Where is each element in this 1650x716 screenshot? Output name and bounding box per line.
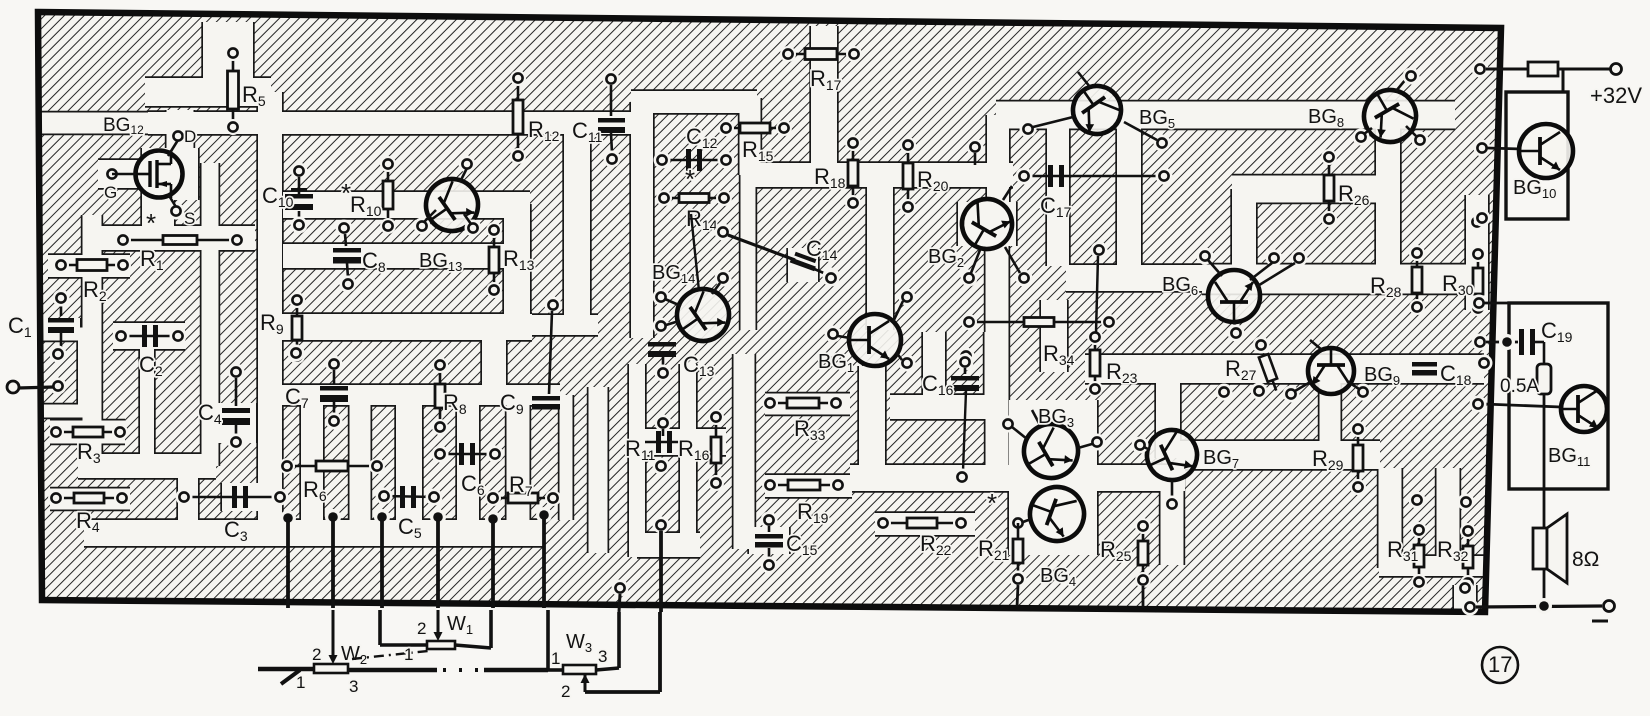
wire trace BG5 riser: [987, 115, 1009, 240]
wire trace P-ring left leg outline: [629, 102, 654, 338]
pad box bottom: [1474, 210, 1491, 227]
wire R25 stem: [1142, 586, 1145, 608]
wire BG9 emitter lead: [1295, 381, 1312, 391]
pad C12 left: [654, 152, 671, 169]
pad finger island node: [288, 345, 305, 362]
pad BG13 collector: [459, 156, 476, 173]
wire trace x860 link outline: [857, 366, 886, 478]
wire rail dash-dot: [443, 668, 484, 672]
wire trace C13 col bottom: [637, 533, 700, 557]
svg-text:3: 3: [598, 647, 607, 666]
wire BG6 bottom lead: [1234, 322, 1236, 328]
pad C17 left: [1016, 168, 1033, 185]
pad BG6 collector: [1197, 248, 1214, 265]
pad BG13 emitter: [414, 218, 431, 235]
wire trace finger gap 6 outline: [558, 395, 574, 520]
wire trace slot A: [1379, 468, 1402, 568]
wire trace R19 band: [765, 475, 852, 497]
wire BG4 base lead: [1023, 519, 1031, 522]
pad C6 right: [487, 446, 504, 463]
wire trace BG12 G-stub outline: [98, 158, 142, 189]
wire trace right col: [1466, 195, 1488, 310]
wire trace BG8 drop: [1376, 126, 1400, 272]
wire W3 wiper: [581, 674, 590, 692]
wire trace island frame top outline: [41, 326, 90, 342]
pad island node b: [653, 458, 670, 475]
wire trace channel-A outline: [283, 190, 530, 219]
wire BG7 base lead: [1144, 447, 1150, 450]
wire W2-W3 rail: [348, 668, 437, 673]
wire trace finger gap 2: [350, 395, 371, 520]
wire C7 bottom lead: [333, 402, 336, 415]
capacitor C15: [755, 534, 783, 548]
pad BG9 emitter: [1283, 386, 1300, 403]
svg-text:3: 3: [349, 677, 358, 696]
resistor R3: [48, 424, 128, 440]
wire BG2 collector lead: [1005, 247, 1020, 273]
wire trace band1 BG9: [1085, 355, 1484, 383]
wire trace C17 column: [1047, 121, 1069, 266]
transistor BG14: [667, 279, 739, 351]
wire drop 6 to potentiometers: [542, 515, 546, 608]
wire trace island frame top: [41, 328, 90, 341]
wire trace left tall vertical outline: [256, 92, 283, 526]
ground mark: [1592, 620, 1608, 623]
wire trace C9 drop outline: [480, 325, 507, 400]
wire trace BG9 drop: [1320, 382, 1341, 455]
figure number 17: [1482, 647, 1518, 683]
resistor R33: [762, 395, 844, 411]
wire trace C14 halo: [788, 248, 818, 282]
svg-text:1: 1: [551, 649, 560, 668]
resistor R9: [289, 292, 305, 364]
capacitor C3: [232, 486, 248, 508]
potentiometer W1: [427, 641, 455, 649]
transistor BG12 (FET): [136, 150, 183, 198]
wire trace R1 band: [98, 226, 255, 250]
wire trace channel-A: [283, 192, 530, 218]
resistor R20: [900, 137, 916, 215]
wire trace BG5-BG8 band outline: [996, 100, 1455, 130]
pad C14 right: [823, 268, 840, 285]
wire trace BG7 slot: [1161, 468, 1184, 565]
wire BG3 collector lead: [1078, 444, 1092, 448]
wire BG12 drain lead: [168, 140, 178, 156]
wire trace BG12 band outline: [41, 111, 148, 135]
resistor R1: [115, 232, 245, 248]
solder junction finger 6: [536, 507, 552, 523]
wire trace channel-B outline: [283, 242, 506, 269]
wire C19 feed: [1486, 341, 1518, 344]
resistor R27 (tilted): [1255, 344, 1281, 393]
wire trace C15 halo outline: [747, 527, 790, 554]
wire BG14 collector lead: [712, 283, 720, 294]
wire trace left mid vertical outline: [200, 163, 220, 466]
wire trace R26 upper outline: [1232, 174, 1377, 204]
wire BG6 lead2: [1256, 263, 1295, 287]
wire trace BG12 S-extension: [142, 198, 174, 230]
wire fuse top: [1543, 342, 1546, 364]
wire trace link y325: [481, 315, 598, 335]
pad BG12 drain: [170, 128, 187, 145]
wire trace P-ring left leg: [631, 102, 653, 338]
wire trace R19 band outline: [765, 473, 852, 498]
electrolytic capacitor C10: [285, 188, 313, 210]
wire trace slot B outline: [1435, 468, 1461, 568]
wire trace main top band: [148, 112, 634, 134]
resistor R25: [1135, 518, 1151, 588]
wire trace finger gap 5 outline: [505, 395, 531, 520]
resistor R11 symbol: [645, 431, 682, 453]
wire BG9 top stub: [1310, 340, 1322, 350]
resistor R18: [845, 135, 861, 211]
wire trace C16 right: [985, 332, 996, 396]
wire BG8 base lead: [1364, 128, 1372, 134]
pad BG12 source: [168, 203, 185, 220]
pad BG8 base: [1353, 129, 1370, 146]
wire trace C4 halo outline: [214, 403, 257, 443]
pad C15 bottom: [761, 557, 778, 574]
pad node c: [823, 270, 840, 287]
wire BG13 base lead: [464, 214, 471, 224]
wire trace R22 band outline: [875, 511, 975, 536]
resistor R31: [1411, 522, 1427, 590]
pad R27 top: [1253, 337, 1270, 354]
pad C10 top: [291, 163, 308, 180]
resistor R28: [1409, 245, 1425, 315]
wire trace R26 upper: [1232, 176, 1377, 203]
wire trace lower-left horiz: [78, 454, 216, 478]
pad BG8 top: [1403, 68, 1420, 85]
wire trace BG3 blob: [1009, 400, 1097, 555]
wire trace top-left horiz: [145, 78, 271, 106]
pad BG5 base: [1020, 121, 1037, 138]
wire W3 wiper return: [585, 690, 660, 694]
resistor R4: [48, 490, 130, 506]
pad BG1 emitter: [899, 355, 916, 372]
wire BG14 lead2: [666, 321, 679, 325]
wire trace R28 channel outline: [1202, 263, 1466, 295]
resistor R2: [53, 257, 131, 273]
wire C10 top lead: [298, 177, 301, 194]
wire BG14 emitter lead: [665, 299, 681, 306]
wire trace C16 left: [923, 332, 945, 396]
capacitor C2: [142, 325, 158, 347]
electrolytic capacitor C7: [320, 386, 348, 402]
pad BG14 emitter: [653, 289, 670, 306]
wire trace island frame bottom outline: [41, 403, 90, 419]
wire trace far-left vertical: [83, 215, 102, 466]
resistor R21: [1013, 523, 1023, 579]
resistor R26: [1321, 149, 1337, 227]
pad R21 bottom: [1010, 571, 1027, 588]
wire trace C13 col bottom outline: [637, 531, 700, 558]
wire C10 bottom lead: [298, 211, 301, 219]
wire trace connector x188: [178, 466, 198, 533]
solder junction finger 3: [374, 509, 390, 525]
pad C4 bottom: [228, 434, 245, 451]
pad C17 right: [1156, 168, 1173, 185]
wire trace band1-band2 link outline: [1154, 382, 1181, 458]
svg-text:*: *: [146, 208, 156, 238]
wire trace island frame right outline: [76, 334, 91, 411]
wire trace C13 col left outline: [627, 364, 646, 557]
wire trace BG12 surround core outline: [140, 148, 199, 200]
wire BG3 top stub: [1032, 410, 1040, 425]
wire trace R4 band: [50, 489, 130, 510]
wire BG11 base feed: [1484, 404, 1561, 407]
wire trace P-ring top: [631, 91, 757, 113]
transistor BG7: [1139, 422, 1205, 488]
solder junction finger 1: [280, 510, 296, 526]
wire trace y175 channel outline: [752, 161, 1013, 188]
svg-text:+32V: +32V: [1590, 83, 1642, 108]
wire W3 right leg: [617, 612, 621, 668]
resistor R5: [225, 45, 241, 135]
wire input terminal lead: [18, 387, 54, 388]
wire C13 lead: [662, 357, 665, 367]
wire trace band1-band2 link: [1156, 382, 1180, 458]
wire trace C2 strip outline: [138, 325, 155, 458]
wire trace finger gap 1: [301, 395, 323, 520]
wire trace main top band outline: [148, 110, 634, 135]
wire trace R2 band: [48, 255, 130, 277]
pad C2 left: [113, 328, 130, 345]
wire BG13 emitter lead: [424, 210, 436, 222]
wire trace P-ring right leg outline: [739, 102, 757, 330]
wire BG2 emitter lead: [971, 250, 980, 273]
wire trace above fingers outline: [265, 383, 560, 406]
wire C1 top lead: [60, 305, 63, 316]
BG10 box: [1506, 92, 1568, 219]
terminal +32V: [1611, 64, 1622, 75]
transistor BG11: [1561, 386, 1607, 432]
capacitor C6: [459, 443, 475, 465]
svg-text:1: 1: [404, 645, 413, 664]
wire BG1 base lead: [838, 336, 850, 338]
capacitor C12: [686, 149, 702, 171]
wire trace C17 column outline: [1045, 121, 1070, 266]
wire trace C16 right outline: [983, 332, 997, 396]
wire trace link y325 outline: [481, 313, 598, 336]
pad C3 left: [176, 489, 193, 506]
pad BG6 node1: [1266, 250, 1283, 267]
resistor R6: [279, 458, 385, 474]
wire C5 leads: [384, 496, 434, 497]
wire C15 bottom lead: [768, 548, 771, 559]
pad BG8 emitter: [1412, 132, 1429, 149]
wire C12 leads: [662, 159, 726, 162]
resistor R32: [1460, 523, 1476, 591]
wire trace C2 band outline: [113, 321, 185, 350]
wire box corner feed: [1484, 302, 1509, 305]
capacitor C19: [1519, 329, 1535, 355]
pad W3-wiper feed: [653, 517, 670, 534]
resistor R15: [718, 120, 792, 136]
wire W3 left link: [548, 668, 563, 672]
wire trace R33 band: [765, 394, 850, 415]
wire trace top-left horiz outline: [145, 76, 271, 107]
pad right edge C18: [1476, 355, 1493, 372]
wire +32V feed: [1486, 68, 1528, 71]
pad C3 right: [272, 489, 289, 506]
solder junction finger 5: [485, 511, 501, 527]
pad BG7 emitter: [1164, 496, 1181, 513]
svg-text:*: *: [685, 164, 695, 194]
pad right col a: [1469, 214, 1486, 231]
wire trace R3 band: [50, 421, 125, 444]
wire BG1 collector lead: [893, 301, 903, 322]
wire W2 left rail: [258, 667, 314, 672]
transistor BG6: [1208, 270, 1260, 322]
wire BG5 top stub: [1078, 72, 1090, 87]
wire trace x860 link: [859, 366, 885, 478]
wire C9 lead: [549, 311, 552, 394]
electrolytic capacitor C8: [333, 248, 361, 264]
wire trace R17 vertical outline: [809, 26, 838, 165]
transistor BG1: [849, 314, 901, 366]
wire drop 3 to potentiometers: [380, 517, 384, 608]
wire W3 wiper riser: [658, 612, 662, 692]
pad C9 top: [545, 297, 562, 314]
wire C17 leads: [1024, 175, 1164, 178]
input terminal: [7, 381, 19, 393]
transistor BG13: [416, 169, 488, 241]
wire BG5 base lead: [1033, 117, 1073, 127]
wire to +32V terminal: [1558, 68, 1610, 71]
pad BG3 base: [1000, 416, 1017, 433]
wire trace R4 band outline: [50, 487, 130, 511]
wire R21 stem: [1017, 585, 1018, 607]
wire trace C2 strip: [140, 325, 154, 458]
wire W2 terminal-1 stub: [281, 670, 300, 684]
wire W1 right link: [455, 645, 491, 648]
wire trace BG12 surround core: [142, 148, 198, 200]
wire BG7 emitter lead: [1171, 480, 1174, 498]
junction C19 feed: [1499, 334, 1515, 350]
wire speaker vertical: [1543, 394, 1546, 606]
wire trace right col outline: [1464, 195, 1489, 310]
wire trace C16 bottom outline: [890, 393, 995, 420]
resistor R7: [485, 490, 561, 506]
wire trace mid long channel: [850, 465, 1185, 491]
pad R21 top: [1010, 515, 1027, 532]
svg-text:*: *: [987, 488, 997, 518]
wire trace R34 channel outline: [1039, 300, 1068, 372]
wire drop 1 to potentiometers: [286, 518, 290, 608]
svg-text:8Ω: 8Ω: [1572, 548, 1599, 571]
transistor BG8: [1354, 80, 1425, 151]
wire trace BG12 G-stub: [98, 160, 142, 188]
pad C2 right: [170, 328, 187, 345]
wire trace R17 vertical: [811, 26, 837, 165]
resistor R12: [510, 70, 526, 164]
wire trace BG5-BG8 band: [996, 102, 1455, 129]
wire trace x598 vertical outline: [587, 387, 609, 553]
output terminal: [1604, 601, 1615, 612]
wire trace island frame right: [78, 334, 90, 411]
wire trace lower-left horiz outline: [78, 452, 216, 479]
wire trace R11 horiz: [629, 429, 726, 455]
wire BG12 source lead: [168, 194, 176, 207]
wire trace BG1 riser: [867, 175, 893, 330]
pad BG9 collector: [1355, 384, 1372, 401]
transistor BG2: [953, 190, 1021, 258]
wire C2 leads: [121, 335, 178, 338]
wire trace finger gap 3: [396, 395, 422, 520]
pad BG12 gate: [104, 166, 121, 183]
wire trace x598 vertical: [589, 387, 608, 553]
pad C1 top: [53, 290, 70, 307]
wire C4 bottom lead: [235, 425, 238, 436]
wire trace C13 col right: [680, 364, 696, 533]
wire trace R26 turn: [1232, 189, 1256, 267]
wire trace finger gap 3 outline: [394, 395, 423, 520]
wire trace slot link outline: [1379, 554, 1484, 577]
wire trace R34 channel: [1041, 300, 1067, 372]
wire C11 bottom lead: [611, 133, 612, 153]
pad out b: [1462, 599, 1479, 616]
wire trace P-ring right leg: [741, 102, 756, 330]
capacitor C5: [400, 486, 416, 508]
wire trace finger gap 4: [457, 395, 479, 520]
pad input node: [50, 378, 67, 395]
wire trace R28 channel: [1202, 265, 1466, 294]
wire trace C11 drop: [564, 130, 590, 327]
pad C15 top: [761, 512, 778, 529]
wire C11 top lead: [610, 85, 613, 116]
wire trace BG3 blob outline: [1007, 400, 1098, 555]
potentiometer W2: [314, 664, 348, 673]
wire trace long bottom channel outline: [84, 518, 544, 547]
resistor R22: [875, 515, 969, 531]
wire bottom output: [1476, 606, 1602, 607]
pad island2 node: [1091, 242, 1108, 259]
resistor R19: [762, 477, 846, 493]
wire C19 to fuse: [1535, 341, 1544, 344]
pad BG3 collector: [1089, 434, 1106, 451]
wire trace C3 halo outline: [220, 483, 259, 511]
wire BG3 base lead: [1012, 427, 1027, 439]
wire trace band1 BG9 outline: [1085, 353, 1484, 384]
wire trace BG8 drop outline: [1374, 126, 1401, 272]
wire BG6 lead1: [1250, 263, 1272, 280]
svg-text:S: S: [184, 209, 195, 228]
capacitor C17: [1048, 165, 1064, 187]
wire trace mid long channel outline: [850, 463, 1185, 492]
wire trace finger gap 6: [560, 395, 573, 520]
wire trace P-right link outline: [738, 98, 762, 175]
wire C1 bottom lead: [60, 333, 63, 347]
svg-text:2: 2: [312, 645, 321, 664]
pad C10 bottom: [291, 217, 308, 234]
wire W3 left leg: [546, 610, 550, 670]
wire W1 left leg: [378, 610, 382, 645]
svg-text:1: 1: [296, 673, 305, 692]
wire drop 4 to potentiometers: [436, 517, 440, 608]
wire trace far-left vertical outline: [81, 215, 103, 466]
pad C12 right: [718, 152, 735, 169]
resistor R23: [1087, 329, 1103, 397]
wire C4 top lead: [235, 378, 238, 406]
pad C11 top: [603, 71, 620, 88]
wire trace y175 channel: [752, 163, 1013, 187]
wire BG1 emitter lead: [896, 352, 902, 360]
wire C7 top lead: [333, 370, 336, 384]
wire W1 right leg: [489, 610, 493, 648]
wire BG8 top stub: [1396, 79, 1406, 91]
wire trace BG12 S-extension outline: [140, 198, 175, 230]
